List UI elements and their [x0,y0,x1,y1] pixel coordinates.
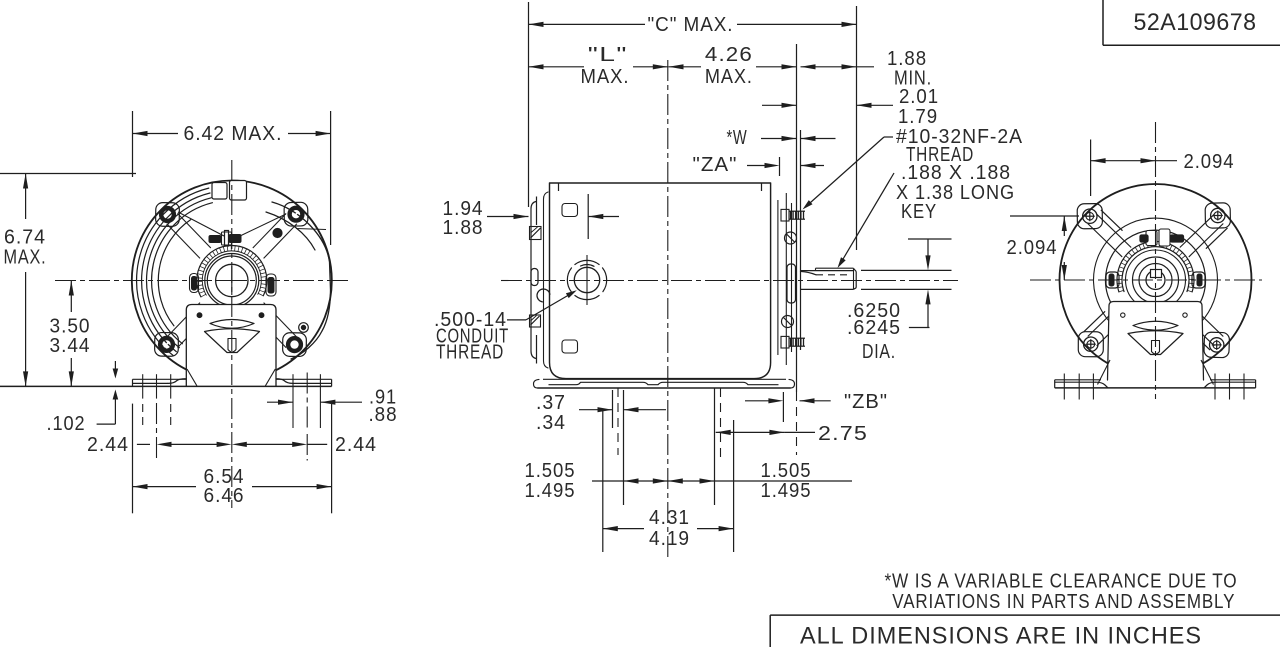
svg-text:.37: .37 [536,392,566,414]
svg-text:ALL DIMENSIONS ARE IN INCHES: ALL DIMENSIONS ARE IN INCHES [800,623,1202,647]
svg-text:*W IS A VARIABLE CLEARANCE DUE: *W IS A VARIABLE CLEARANCE DUE TO [885,570,1238,592]
svg-text:1.79: 1.79 [898,106,938,128]
svg-text:DIA.: DIA. [862,341,896,363]
svg-text:1.495: 1.495 [761,480,812,502]
svg-text:THREAD: THREAD [436,342,504,364]
svg-text:KEY: KEY [901,201,937,223]
svg-text:.188 X .188: .188 X .188 [901,162,1011,184]
svg-text:4.31: 4.31 [649,507,690,529]
svg-text:6.74: 6.74 [4,227,46,249]
svg-text:2.75: 2.75 [818,423,868,445]
svg-text:6.46: 6.46 [204,485,245,507]
svg-text:2.44: 2.44 [335,434,377,456]
svg-text:MAX.: MAX. [705,66,753,88]
svg-text:6.42 MAX.: 6.42 MAX. [184,123,283,145]
svg-text:52A109678: 52A109678 [1134,9,1257,36]
svg-text:"ZB": "ZB" [844,391,888,413]
svg-text:MAX.: MAX. [4,247,47,269]
svg-text:"ZA": "ZA" [693,154,738,176]
svg-text:4.26: 4.26 [705,44,753,66]
svg-text:3.44: 3.44 [50,335,91,357]
svg-text:"L": "L" [588,44,628,66]
svg-text:1.505: 1.505 [525,460,576,482]
svg-text:2.01: 2.01 [899,86,939,108]
svg-text:2.44: 2.44 [87,434,129,456]
svg-text:*W: *W [727,127,748,149]
svg-text:1.88: 1.88 [443,217,484,239]
svg-text:2.094: 2.094 [1007,237,1058,259]
svg-text:1.505: 1.505 [761,460,812,482]
svg-text:1.495: 1.495 [525,480,576,502]
svg-text:.88: .88 [369,404,398,426]
svg-text:"C" MAX.: "C" MAX. [648,14,734,36]
svg-text:2.094: 2.094 [1184,151,1235,173]
svg-text:.102: .102 [47,413,86,435]
svg-text:VARIATIONS IN PARTS AND ASSEMB: VARIATIONS IN PARTS AND ASSEMBLY [892,591,1235,613]
svg-text:MAX.: MAX. [581,66,630,88]
svg-text:4.19: 4.19 [649,528,690,550]
svg-text:.34: .34 [536,412,566,434]
svg-text:.6245: .6245 [847,317,901,339]
